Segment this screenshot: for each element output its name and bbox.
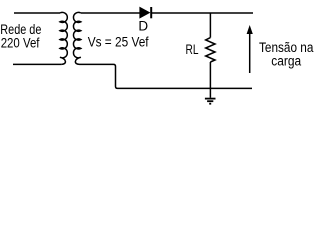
wire diode cathode to right end [151, 12, 253, 14]
wire secondary top to diode anode [81, 12, 140, 14]
wire resistor bottom to ground [209, 62, 211, 98]
ground bar 2 [207, 100, 213, 102]
svg-text:Vs = 25 Vef: Vs = 25 Vef [88, 35, 149, 50]
ground bar 3 [209, 103, 211, 105]
diode D cathode bar [150, 7, 152, 18]
svg-text:220 Vef: 220 Vef [1, 36, 40, 51]
wire resistor top branch [209, 13, 211, 38]
resistor RL zigzag [206, 38, 215, 62]
arrow line (load voltage annotation) [249, 32, 251, 73]
wire primary top lead [14, 12, 60, 14]
svg-text:RL: RL [186, 42, 199, 57]
arrow head [247, 25, 253, 34]
transformer primary winding [60, 12, 67, 64]
wire secondary bottom with step [80, 64, 253, 88]
svg-text:carga: carga [271, 53, 301, 68]
diode D triangle [140, 7, 150, 18]
transformer secondary winding [73, 12, 80, 64]
svg-text:Rede de: Rede de [0, 22, 41, 37]
wire primary bottom lead [13, 63, 61, 65]
svg-text:D: D [138, 19, 148, 34]
ground bar 1 [205, 98, 216, 100]
